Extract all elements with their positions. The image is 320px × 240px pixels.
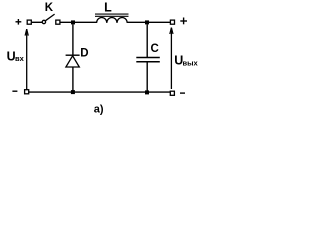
wire diode bottom [72, 67, 74, 92]
arrow Uvx shaft [26, 29, 28, 89]
inductor L winding [97, 17, 128, 22]
bottom wire [29, 91, 170, 93]
node top diode junction [71, 20, 75, 24]
arrow Uvx head [25, 29, 28, 35]
wire switch to inductor [60, 21, 96, 23]
plus sign output [180, 18, 187, 25]
arrow Uvyx shaft [170, 28, 172, 89]
arrow Uvyx head [170, 28, 173, 34]
terminal T1 (top-left square) [27, 20, 31, 24]
svg-text:D: D [80, 47, 88, 59]
svg-text:а): а) [94, 104, 104, 116]
wire capacitor top [146, 24, 148, 57]
switch K terminal square [56, 20, 60, 24]
plus sign input [16, 19, 22, 25]
node bottom diode junction [71, 90, 75, 94]
switch K contact circle [42, 20, 45, 23]
terminal T3 (bottom-left square) [25, 90, 29, 94]
svg-text:вх: вх [15, 54, 25, 63]
wire T1 to switch [32, 21, 42, 23]
minus sign output [180, 92, 185, 94]
diode D cathode bar [66, 54, 80, 56]
svg-text:вых: вых [183, 59, 199, 68]
svg-text:K: K [45, 2, 54, 14]
capacitor C bottom plate [136, 61, 160, 63]
terminal T2 (top-right square) [170, 20, 174, 24]
node top capacitor junction [145, 20, 149, 24]
node bottom capacitor junction [145, 90, 149, 94]
wire capacitor bottom [146, 62, 148, 92]
svg-text:L: L [104, 0, 112, 14]
minus sign input [12, 90, 17, 92]
wire inductor to T2 [127, 21, 170, 23]
inductor L core lines [95, 14, 129, 16]
wire diode top [72, 24, 74, 55]
capacitor C top plate [136, 57, 160, 59]
diode D triangle [66, 56, 79, 67]
svg-text:C: C [151, 43, 159, 55]
switch K lever [46, 14, 55, 21]
terminal T4 (bottom-right square) [170, 91, 174, 95]
